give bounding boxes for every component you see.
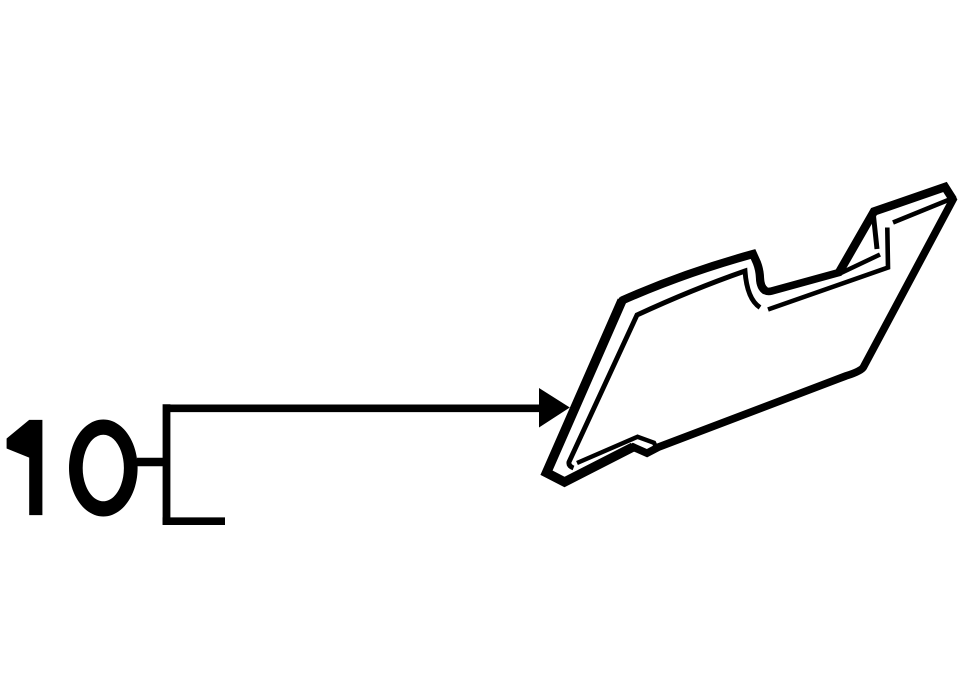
leader bracket bottom horizontal [163,517,225,525]
panel inner edge: top-right line and tab fold vertical [768,228,888,310]
leader tick from label [137,458,170,467]
leader bracket vertical [163,404,171,525]
inner bottom edge line with step jog [577,437,655,463]
tab fold left short line [874,216,878,249]
panel outer outline [547,187,954,482]
tab fold crease from kink [841,255,880,274]
arrowhead [539,388,570,428]
panel inner edge: left side and top-left with notch fillet [569,271,760,468]
inner line near peak [893,200,950,223]
callout digit 1 [7,420,43,515]
top-left edge and notch overlay [622,254,766,301]
tab edges overlay [839,187,953,273]
callout digit 0 [69,420,138,517]
arrow shaft [166,404,541,412]
left edge heavier overlay [547,301,634,483]
